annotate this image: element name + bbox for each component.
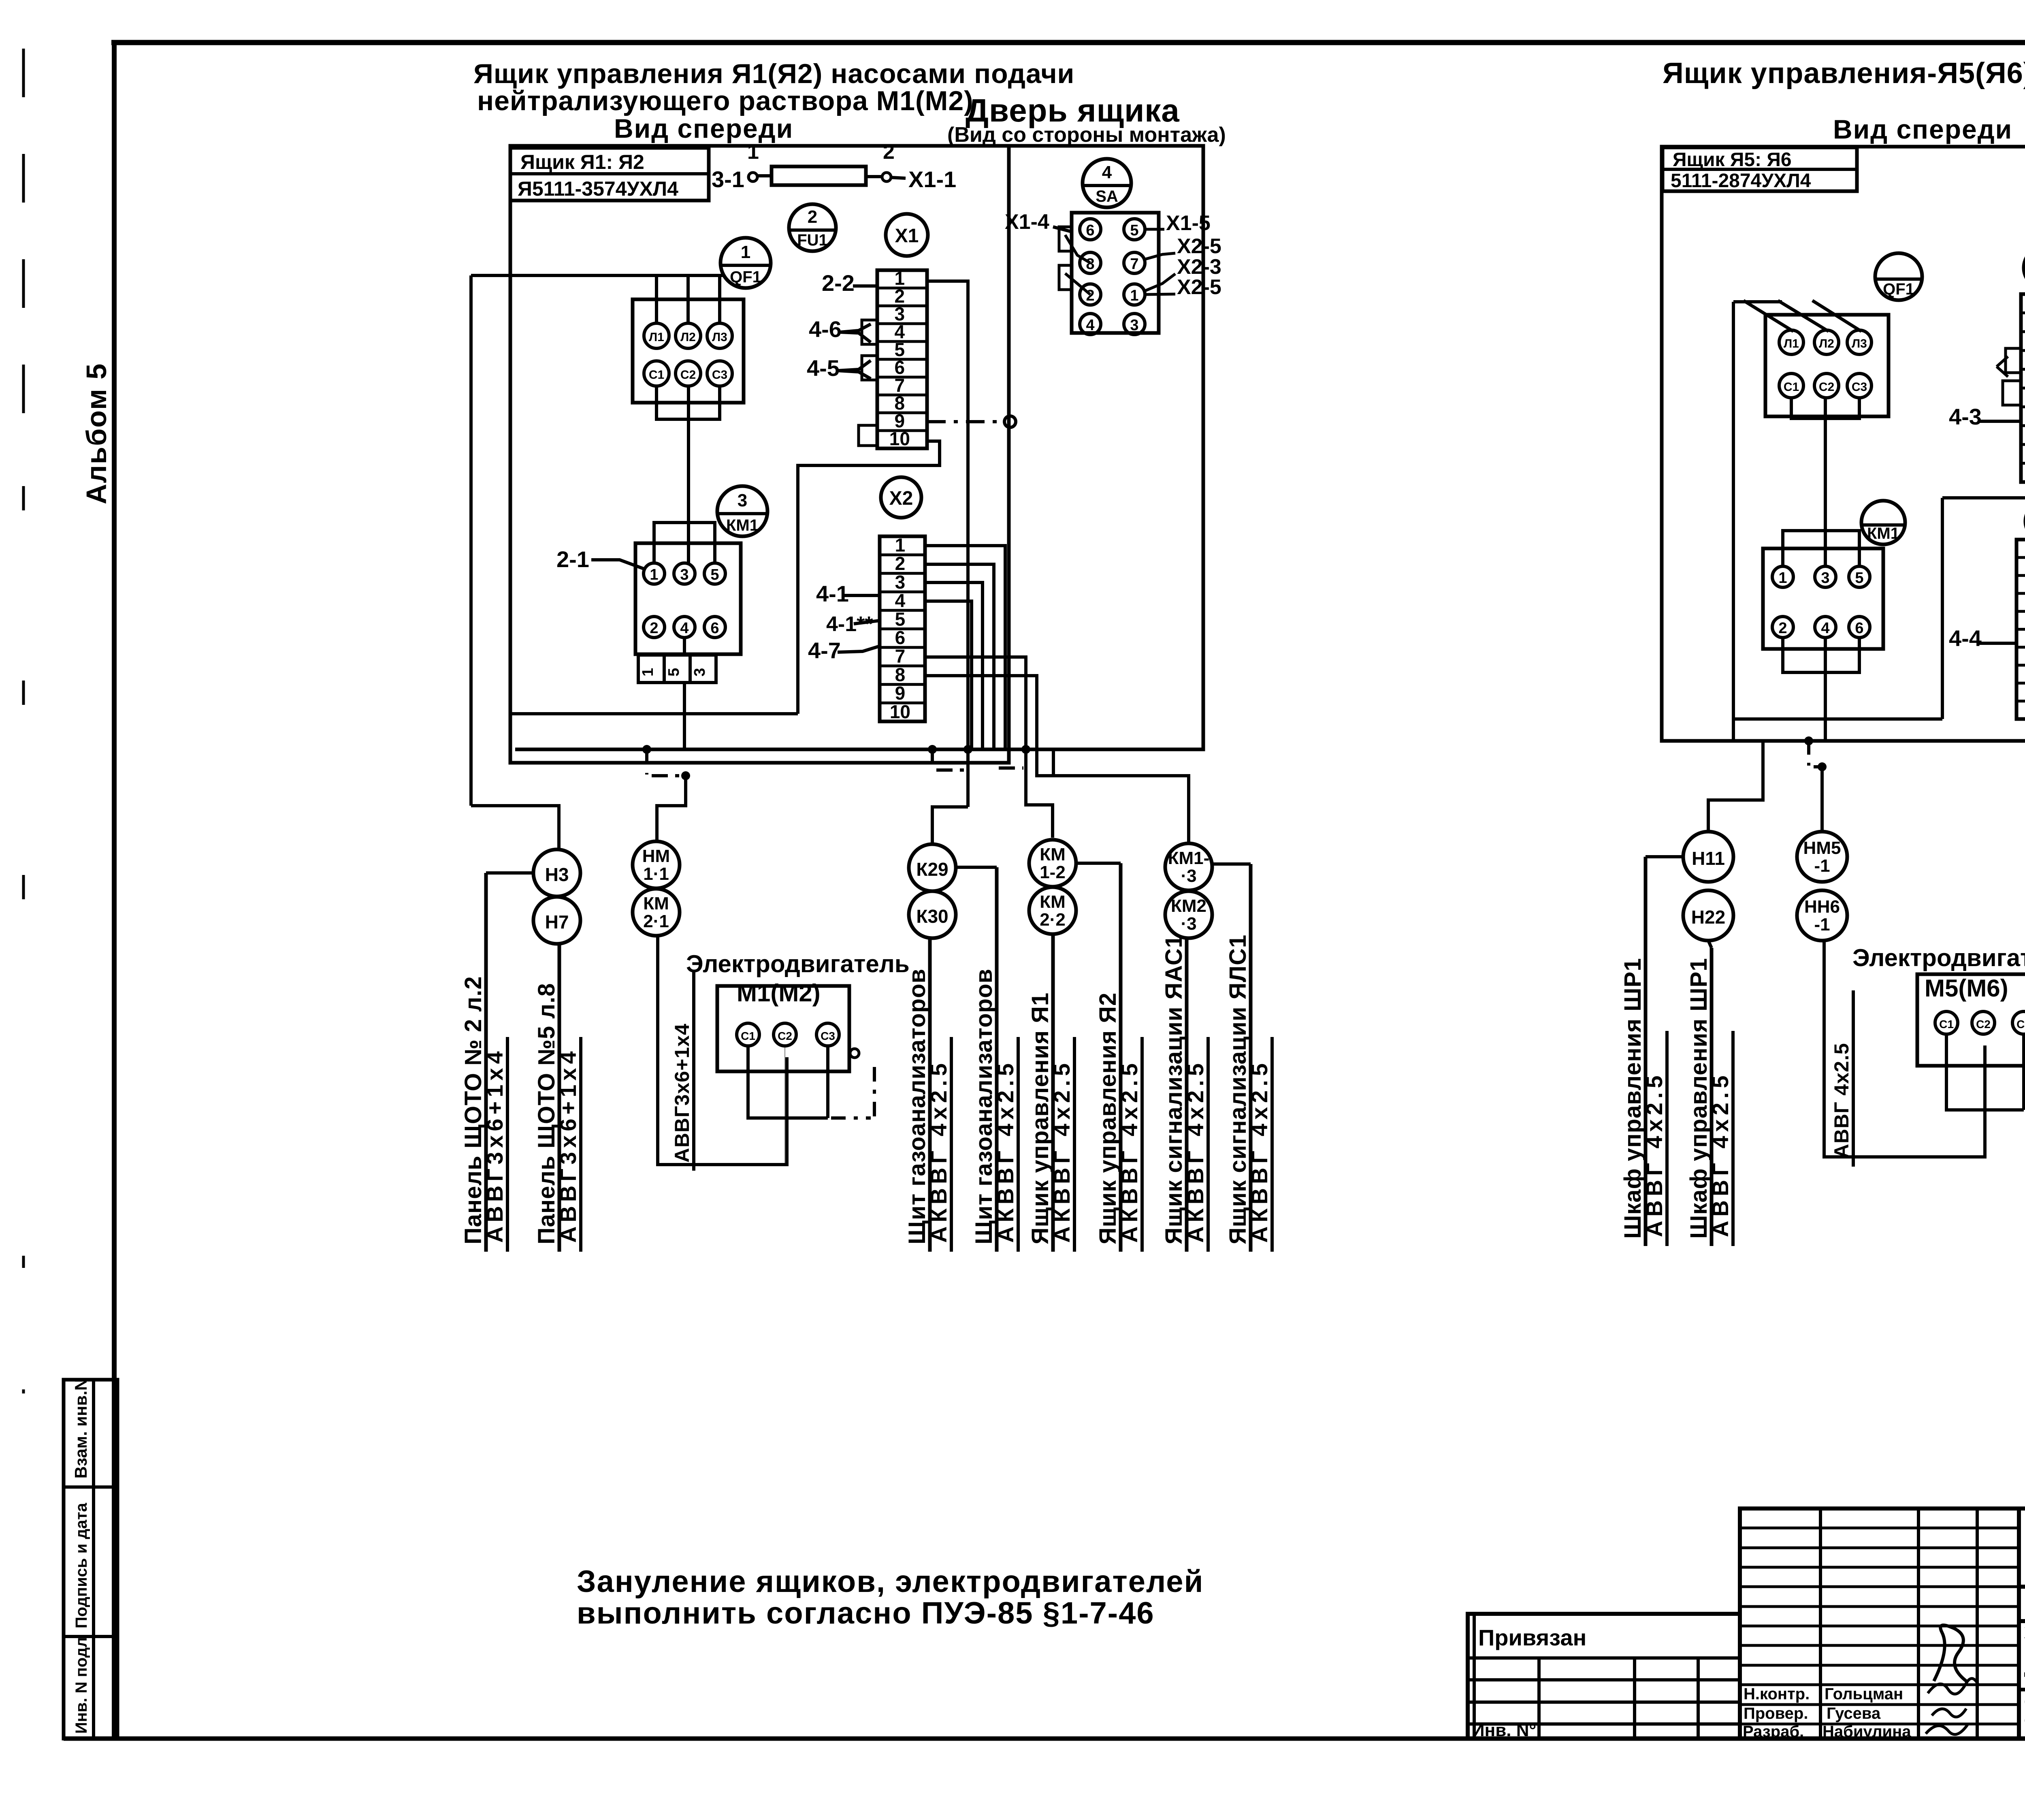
svg-text:4-5: 4-5 xyxy=(807,355,840,381)
svg-text:Х1-4: Х1-4 xyxy=(1005,210,1049,234)
svg-text:Ящик Я1: Я2: Ящик Я1: Я2 xyxy=(520,151,644,173)
svg-text:К29: К29 xyxy=(916,859,948,880)
svg-text:Разраб.: Разраб. xyxy=(1743,1723,1804,1741)
svg-text:2: 2 xyxy=(1086,287,1094,304)
svg-text:Электродвигатель: Электродвигатель xyxy=(1852,944,2025,971)
svg-text:5: 5 xyxy=(895,608,906,629)
svg-text:1: 1 xyxy=(741,242,750,262)
svg-text:3: 3 xyxy=(738,491,747,510)
svg-text:С1: С1 xyxy=(1939,1018,1954,1031)
svg-text:НМ5: НМ5 xyxy=(1803,838,1841,858)
svg-text:Ящик Я5: Я6: Ящик Я5: Я6 xyxy=(1673,149,1792,171)
svg-text:КМ1: КМ1 xyxy=(726,516,759,534)
svg-text:5111-2874УХЛ4: 5111-2874УХЛ4 xyxy=(1671,170,1811,192)
svg-text:9: 9 xyxy=(895,683,906,704)
svg-text:7: 7 xyxy=(1130,256,1138,273)
svg-text:АКВВГ 4х2.5: АКВВГ 4х2.5 xyxy=(926,1059,951,1243)
svg-text:3: 3 xyxy=(691,668,708,676)
svg-text:2: 2 xyxy=(650,620,658,637)
svg-text:АВВГ 4х2.5: АВВГ 4х2.5 xyxy=(1830,1043,1853,1159)
svg-text:Х1: Х1 xyxy=(895,225,919,247)
svg-text:С3: С3 xyxy=(821,1030,835,1042)
svg-text:С2: С2 xyxy=(1976,1018,1991,1031)
svg-text:4-1**: 4-1** xyxy=(826,612,873,636)
svg-text:SA: SA xyxy=(1096,188,1118,205)
svg-text:Подпись и дата: Подпись и дата xyxy=(72,1502,90,1628)
svg-text:С2: С2 xyxy=(1819,380,1834,394)
svg-text:3: 3 xyxy=(680,566,688,583)
svg-text:нейтрализующего раствора М1(М2: нейтрализующего раствора М1(М2) xyxy=(477,85,974,116)
svg-text:2·2: 2·2 xyxy=(1040,910,1066,930)
svg-text:Альбом 5: Альбом 5 xyxy=(81,363,112,504)
svg-text:К30: К30 xyxy=(916,906,948,927)
svg-text:Н7: Н7 xyxy=(545,911,569,932)
svg-text:Н22: Н22 xyxy=(1691,907,1725,928)
svg-text:АВВГ 4х2.5: АВВГ 4х2.5 xyxy=(1707,1071,1733,1237)
svg-text:2: 2 xyxy=(1778,620,1787,637)
svg-text:Провер.: Провер. xyxy=(1744,1705,1808,1722)
svg-text:КМ: КМ xyxy=(1040,845,1066,864)
svg-text:Набиулина: Набиулина xyxy=(1823,1723,1911,1741)
svg-text:С2: С2 xyxy=(778,1030,792,1042)
svg-text:Привязан: Привязан xyxy=(1478,1625,1586,1650)
svg-text:1: 1 xyxy=(747,140,759,164)
svg-text:С1: С1 xyxy=(741,1030,755,1042)
svg-text:М5(М6): М5(М6) xyxy=(1925,975,2008,1002)
svg-text:4: 4 xyxy=(895,590,906,611)
svg-text:(Вид со стороны монтажа): (Вид со стороны монтажа) xyxy=(947,123,1226,147)
svg-text:Х1-1: Х1-1 xyxy=(908,166,956,192)
svg-text:АВВГ 4х2.5: АВВГ 4х2.5 xyxy=(1641,1071,1667,1237)
svg-text:6: 6 xyxy=(895,627,906,648)
svg-text:выполнить согласно ПУЭ-85 §1-7: выполнить согласно ПУЭ-85 §1-7-46 xyxy=(577,1596,1155,1630)
svg-text:Н3: Н3 xyxy=(545,864,569,885)
svg-text:5: 5 xyxy=(1855,570,1863,587)
svg-text:4: 4 xyxy=(1102,162,1112,182)
svg-text:М1(М2): М1(М2) xyxy=(737,979,821,1007)
svg-text:КМ1-: КМ1- xyxy=(1168,848,1210,868)
svg-text:Л1: Л1 xyxy=(1784,337,1799,350)
svg-text:АКВВГ 4х2.5: АКВВГ 4х2.5 xyxy=(1049,1059,1074,1243)
svg-text:НМ: НМ xyxy=(642,846,670,866)
svg-text:8: 8 xyxy=(895,664,906,685)
svg-text:1: 1 xyxy=(1130,287,1138,304)
svg-text:3: 3 xyxy=(1821,570,1829,587)
svg-text:6: 6 xyxy=(1855,620,1863,637)
svg-text:3-1: 3-1 xyxy=(712,166,744,192)
svg-text:Вид спереди: Вид спереди xyxy=(1833,114,2012,144)
svg-text:2-1: 2-1 xyxy=(556,546,589,572)
svg-text:3: 3 xyxy=(895,572,906,593)
svg-text:1·1: 1·1 xyxy=(643,864,669,884)
svg-text:Л2: Л2 xyxy=(680,331,696,344)
svg-text:С1: С1 xyxy=(1784,380,1799,394)
svg-text:Электродвигатель: Электродвигатель xyxy=(686,950,910,977)
svg-text:5: 5 xyxy=(665,668,682,676)
svg-text:2·1: 2·1 xyxy=(643,911,669,931)
svg-text:2: 2 xyxy=(895,553,906,574)
svg-text:4: 4 xyxy=(680,620,688,637)
svg-text:1: 1 xyxy=(895,534,906,555)
svg-text:7: 7 xyxy=(895,646,906,667)
svg-text:4-6: 4-6 xyxy=(809,316,842,342)
svg-text:FU1: FU1 xyxy=(797,231,828,249)
svg-text:Л3: Л3 xyxy=(712,331,727,344)
svg-text:5: 5 xyxy=(1130,222,1138,239)
svg-text:Н.контр.: Н.контр. xyxy=(1744,1685,1810,1703)
svg-text:Л3: Л3 xyxy=(1852,337,1867,350)
svg-text:Л1: Л1 xyxy=(649,331,664,344)
svg-text:4-3: 4-3 xyxy=(1949,404,1982,429)
svg-text:АВВГ3х6+1х4: АВВГ3х6+1х4 xyxy=(671,1023,693,1163)
svg-text:4: 4 xyxy=(1086,317,1094,334)
svg-text:4-1: 4-1 xyxy=(816,581,849,606)
svg-text:2: 2 xyxy=(808,207,817,227)
svg-text:КМ2: КМ2 xyxy=(1171,896,1206,916)
svg-text:АКВВГ 4х2.5: АКВВГ 4х2.5 xyxy=(1247,1059,1272,1243)
svg-text:6: 6 xyxy=(1086,222,1094,239)
svg-text:2: 2 xyxy=(883,140,895,164)
svg-text:КМ1: КМ1 xyxy=(1867,525,1899,542)
svg-text:АВВГ3х6+1х4: АВВГ3х6+1х4 xyxy=(555,1047,581,1243)
svg-text:-1: -1 xyxy=(1814,856,1830,876)
svg-text:1: 1 xyxy=(639,668,657,676)
svg-text:КМ: КМ xyxy=(643,894,669,913)
svg-text:С3: С3 xyxy=(2016,1018,2025,1031)
svg-text:Зануление ящиков, электродвига: Зануление ящиков, электродвигателей xyxy=(577,1564,1204,1599)
svg-text:Ящик управления Я1(Я2) насосам: Ящик управления Я1(Я2) насосами подачи xyxy=(473,58,1074,89)
svg-text:Гусева: Гусева xyxy=(1827,1705,1881,1722)
svg-text:АВВГ3х6+1х4: АВВГ3х6+1х4 xyxy=(482,1047,507,1243)
svg-text:-1: -1 xyxy=(1814,915,1830,935)
svg-text:4-4: 4-4 xyxy=(1949,625,1982,651)
svg-text:8: 8 xyxy=(1086,256,1094,273)
svg-text:С1: С1 xyxy=(649,368,664,382)
svg-text:10: 10 xyxy=(889,428,910,449)
svg-text:·3: ·3 xyxy=(1181,914,1196,934)
svg-text:Л2: Л2 xyxy=(1819,337,1834,350)
svg-text:Я5111-3574УХЛ4: Я5111-3574УХЛ4 xyxy=(518,177,678,200)
svg-text:·3: ·3 xyxy=(1181,866,1196,886)
svg-text:Гольцман: Гольцман xyxy=(1825,1685,1903,1703)
svg-text:С2: С2 xyxy=(680,368,696,382)
svg-text:1: 1 xyxy=(1778,570,1787,587)
svg-text:АКВВГ 4х2.5: АКВВГ 4х2.5 xyxy=(993,1059,1018,1243)
svg-text:Н11: Н11 xyxy=(1692,848,1725,869)
svg-text:С3: С3 xyxy=(1852,380,1867,394)
svg-text:QF1: QF1 xyxy=(1883,280,1914,298)
svg-text:10: 10 xyxy=(890,701,910,722)
svg-text:Х1-5: Х1-5 xyxy=(1166,211,1211,235)
svg-text:Инв. N подл: Инв. N подл xyxy=(72,1637,90,1734)
svg-text:4-7: 4-7 xyxy=(808,638,841,663)
svg-text:4: 4 xyxy=(1821,620,1829,637)
svg-text:АКВВГ 4х2.5: АКВВГ 4х2.5 xyxy=(1183,1059,1208,1243)
svg-text:Х2-5: Х2-5 xyxy=(1177,235,1221,258)
svg-text:С3: С3 xyxy=(712,368,727,382)
svg-text:КМ: КМ xyxy=(1040,892,1066,912)
svg-text:5: 5 xyxy=(710,566,719,583)
svg-text:Взам. инв.N: Взам. инв.N xyxy=(71,1378,90,1479)
svg-text:Инв. N°: Инв. N° xyxy=(1472,1720,1536,1740)
svg-text:2-2: 2-2 xyxy=(822,270,855,296)
svg-text:НН6: НН6 xyxy=(1804,897,1840,917)
svg-text:Ящик управления-Я5(Я6) компрес: Ящик управления-Я5(Я6) компрессорам М5(М… xyxy=(1663,57,2025,90)
svg-text:3: 3 xyxy=(1130,317,1138,334)
svg-text:АКВВГ 4х2.5: АКВВГ 4х2.5 xyxy=(1117,1059,1142,1243)
svg-text:Вид спереди: Вид спереди xyxy=(614,113,793,143)
svg-text:1: 1 xyxy=(650,566,658,583)
svg-text:1-2: 1-2 xyxy=(1040,862,1066,882)
svg-text:Х2: Х2 xyxy=(889,488,913,509)
svg-text:QF1: QF1 xyxy=(730,268,761,286)
svg-text:6: 6 xyxy=(710,620,719,637)
svg-text:Х2-5: Х2-5 xyxy=(1177,275,1221,299)
